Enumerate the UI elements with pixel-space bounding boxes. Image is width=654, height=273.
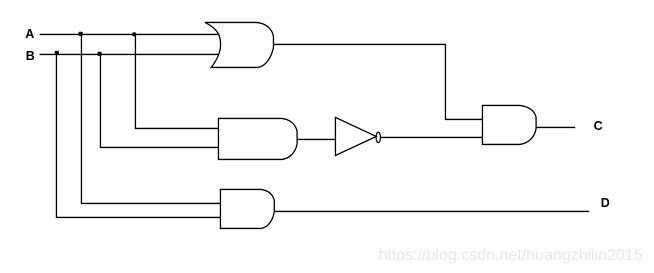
wire from A junction down and right to middle AND upper input: [135, 34, 219, 128]
wire A horizontal: [40, 33, 219, 35]
not-gate G3 triangle: [335, 117, 376, 155]
junction dot on A at x=135.5: [132, 32, 136, 36]
svg-text:https://blog.csdn.net/huangzhi: https://blog.csdn.net/huangzhilin2015: [379, 247, 643, 264]
and-gate G2 middle: [218, 118, 297, 159]
or-gate G1: [205, 22, 273, 67]
wire B horizontal: [40, 53, 219, 55]
svg-text:B: B: [26, 49, 35, 63]
wire from B junction down and right to middle AND lower input: [100, 54, 219, 147]
svg-text:C: C: [594, 119, 603, 133]
and-gate G5 bottom: [220, 189, 274, 228]
wire from A junction down and right to bottom AND upper input: [81, 34, 221, 203]
not-gate G3 bubble: [376, 132, 380, 142]
junction dot on B at x=56.5: [55, 51, 59, 55]
svg-text:A: A: [25, 27, 34, 41]
wire OR output right, down, right to right AND upper input: [273, 44, 482, 119]
wire from B junction down and right to bottom AND lower input: [56, 54, 221, 217]
junction dot on A at x=81.5: [79, 32, 83, 36]
and-gate G4 right: [482, 105, 536, 144]
svg-text:D: D: [601, 196, 610, 210]
wire middle AND output to NOT input: [297, 138, 335, 140]
wire NOT output to right AND lower input: [381, 136, 483, 138]
wire C output: [536, 126, 575, 128]
wire D output: [274, 210, 589, 212]
junction dot on B at x=100.5: [98, 52, 102, 56]
